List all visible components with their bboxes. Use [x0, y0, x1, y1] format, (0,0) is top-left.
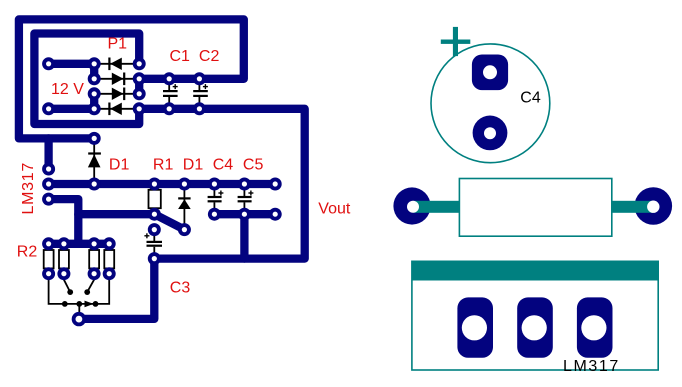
svg-text:D1: D1 — [183, 157, 204, 174]
svg-text:Vout: Vout — [318, 201, 351, 218]
svg-text:12 V: 12 V — [51, 81, 84, 98]
svg-text:C3: C3 — [170, 279, 191, 296]
svg-text:C5: C5 — [243, 157, 264, 174]
svg-text:LM317: LM317 — [20, 162, 37, 214]
svg-text:D1: D1 — [109, 157, 130, 174]
svg-text:R2: R2 — [17, 244, 38, 261]
svg-text:P1: P1 — [108, 35, 128, 52]
svg-text:C1: C1 — [170, 48, 191, 65]
svg-text:C4: C4 — [520, 90, 541, 107]
svg-text:C2: C2 — [199, 48, 220, 65]
svg-text:R1: R1 — [153, 157, 174, 174]
svg-text:C4: C4 — [213, 157, 234, 174]
svg-text:LM317: LM317 — [563, 358, 620, 375]
